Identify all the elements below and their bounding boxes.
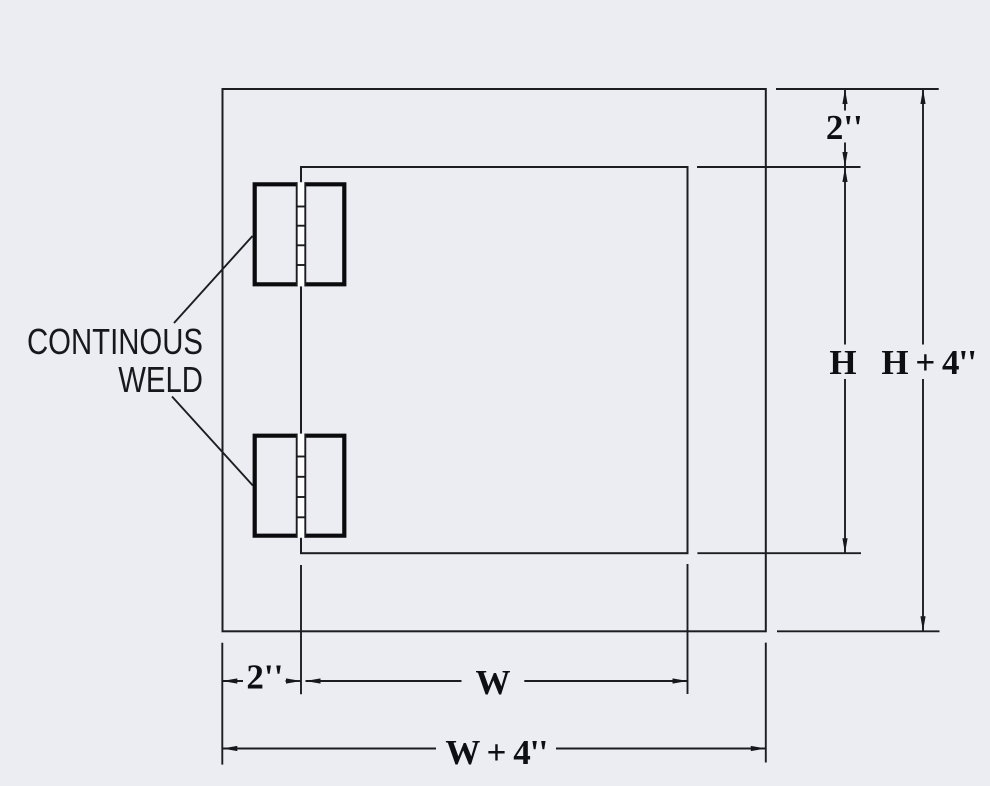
extension line door top edge — [697, 166, 861, 168]
svg-text:2'': 2'' — [826, 108, 863, 147]
extension line frame right down — [765, 643, 767, 763]
frame outer rectangle — [223, 89, 766, 631]
hinge H2 (bottom) — [255, 434, 345, 538]
leader line to top hinge — [174, 236, 253, 323]
dimension 2" top right — [826, 89, 863, 167]
svg-text:WELD: WELD — [118, 359, 203, 400]
dimension H + 4" — [881, 89, 976, 631]
label CONTINOUS WELD — [27, 321, 203, 399]
svg-text:W: W — [476, 663, 511, 702]
extension line door right down — [687, 564, 689, 694]
door panel rectangle — [301, 167, 688, 553]
extension line frame bottom edge — [777, 630, 940, 632]
svg-text:W + 4'': W + 4'' — [445, 733, 547, 772]
dimension 2" bottom left — [222, 658, 301, 697]
extension line door bottom edge — [697, 552, 861, 554]
svg-text:2'': 2'' — [246, 658, 283, 697]
extension line frame left down — [221, 643, 223, 765]
svg-text:CONTINOUS: CONTINOUS — [27, 321, 203, 362]
leader line to bottom hinge — [172, 397, 253, 486]
dimension W — [306, 663, 688, 702]
dimension H — [829, 167, 856, 553]
extension line door left down — [300, 565, 302, 694]
svg-text:H: H — [829, 343, 856, 382]
svg-text:H + 4'': H + 4'' — [881, 343, 976, 382]
hinge H1 (top) — [255, 182, 345, 286]
dimension W + 4" — [222, 733, 766, 772]
extension line top (from frame top edge) — [776, 88, 939, 90]
